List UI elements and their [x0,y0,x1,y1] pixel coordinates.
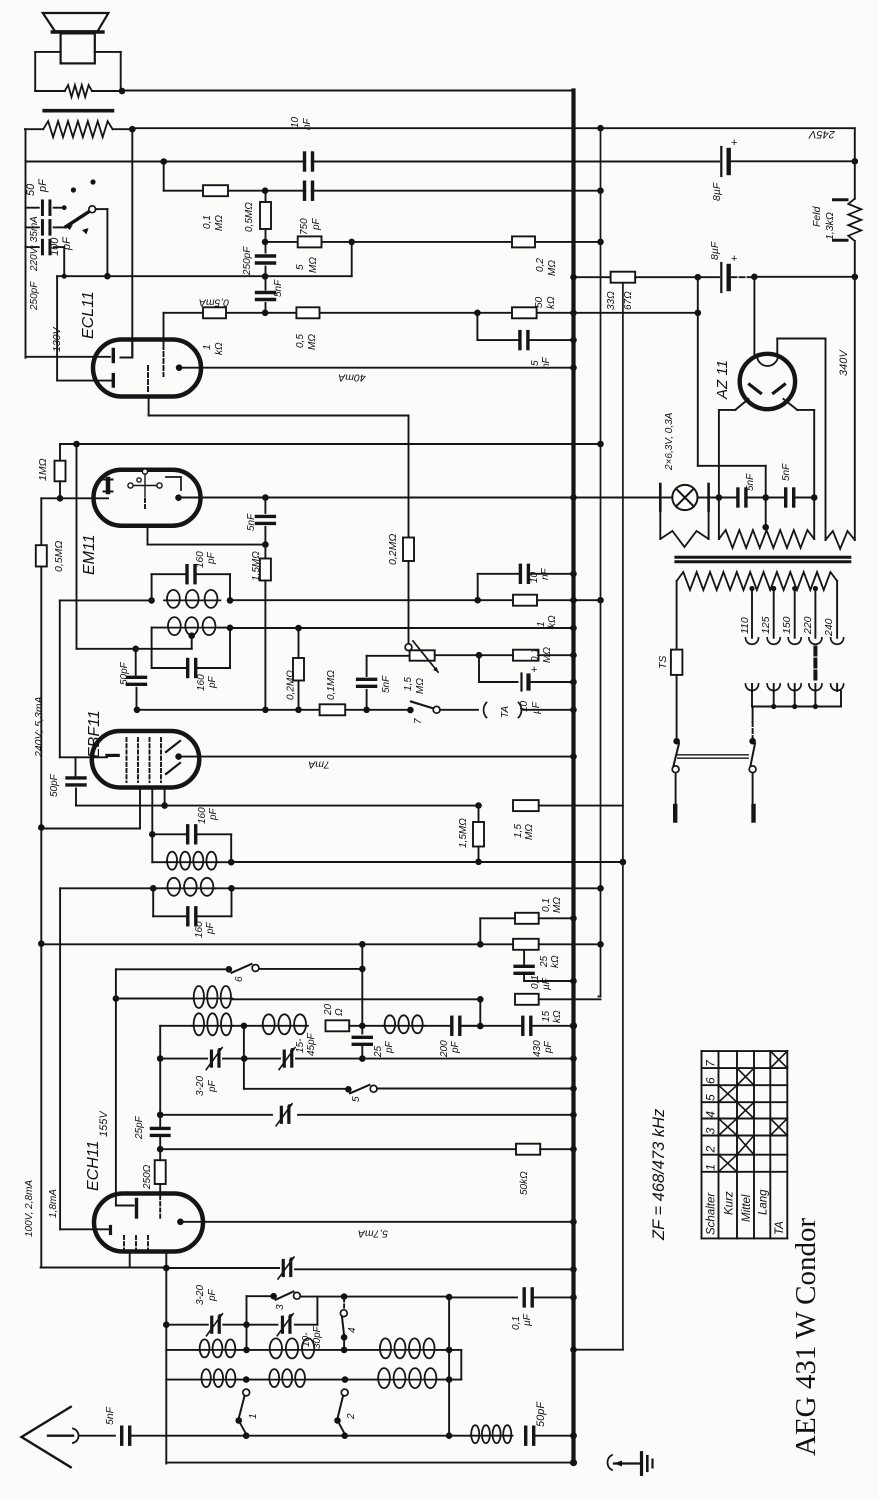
wire [264,545,266,559]
svg-text:1MΩ: 1MΩ [37,458,49,481]
AZ11 anode [750,385,761,394]
resistor 1.5MOhm [513,800,539,811]
wire [163,162,165,191]
junction [749,738,756,745]
wire [676,581,678,650]
wire [59,444,61,461]
tone switch lever [66,211,90,234]
junction [792,704,797,709]
wire [25,128,43,130]
wire [35,51,60,53]
junction [570,337,577,344]
wire pentode grid [163,313,165,345]
wire [218,861,231,863]
junction [570,1346,577,1353]
fuse TS [671,650,683,675]
wire [265,267,267,277]
capacitor 50pF [67,778,85,785]
svg-text:1: 1 [704,1164,718,1171]
coil oscillator [192,1013,233,1035]
winding HV 340V [826,531,855,549]
svg-text:8µF: 8µF [711,182,723,201]
wire ECL11 grid coupling [149,415,409,417]
svg-text:240: 240 [823,618,835,637]
switch 2 lever [338,1396,344,1419]
junction [262,494,269,501]
wire [533,1025,574,1027]
wire [264,581,266,710]
wire [151,788,153,835]
wire osc low [166,1324,208,1326]
wire [523,709,574,711]
wire [296,1058,574,1060]
junction [341,1334,348,1341]
coil oscillator [383,1015,424,1033]
svg-text:ECL11: ECL11 [80,291,97,339]
junction [177,1219,184,1226]
junction [597,941,604,948]
wire [751,691,753,707]
junction [716,494,723,501]
wire [479,918,481,944]
junction [262,310,269,317]
wire [26,226,39,228]
wire 155V line [160,1148,516,1150]
coil osc band [198,1339,237,1357]
svg-text:160: 160 [195,551,206,568]
wire [159,1196,161,1218]
svg-text:pF: pF [207,1288,218,1302]
tube ECL11 [93,340,201,397]
svg-text:160: 160 [196,674,207,691]
wire [814,589,816,638]
TA pickup jack [484,703,522,718]
junction [570,679,577,686]
svg-text:50pF: 50pF [119,661,130,685]
wire EM11 cathode [148,544,266,546]
wire [152,888,154,916]
wire tank1 left [59,600,61,757]
wire [229,574,231,600]
svg-text:250pF: 250pF [242,246,253,276]
resistor 0.1MOhm [515,913,539,924]
junction [570,571,577,578]
svg-text:250Ω: 250Ω [142,1164,153,1190]
junction [157,1055,164,1062]
wire [246,1435,345,1437]
junction [570,1294,577,1301]
table X mark [737,1102,754,1118]
capacitor 50pF tone [42,201,50,215]
wire [244,1088,348,1090]
svg-text:3: 3 [704,1127,718,1134]
svg-text:4: 4 [704,1111,718,1118]
resistor 50kOhm [516,1144,540,1155]
wire [678,757,749,759]
junction [295,625,302,632]
ECL11 plate [121,340,133,358]
svg-text:5nF: 5nF [745,473,756,491]
junction [176,364,183,371]
svg-text:50: 50 [534,296,545,308]
svg-text:1,5MΩ: 1,5MΩ [458,818,469,848]
capacitor 0.1uF [515,966,533,973]
svg-text:50: 50 [25,183,37,196]
junction [673,738,680,745]
svg-text:0,5MΩ: 0,5MΩ [53,541,65,572]
junction [227,625,234,632]
junction [175,494,182,501]
junction [852,158,859,165]
junction [792,586,797,591]
junction [597,125,604,132]
junction [161,802,168,809]
svg-text:Schalter: Schalter [706,1192,718,1235]
table line [702,1135,788,1137]
wire [233,998,481,1000]
svg-text:kΩ: kΩ [552,1010,563,1023]
trimmer 10-30pF [282,1317,290,1332]
junction [163,1321,170,1328]
svg-text:MΩ: MΩ [214,215,225,231]
wire [54,246,64,248]
coil oscillator feedback [192,986,233,1008]
wire to ECL11 plate [131,129,133,357]
tube EM11 [94,470,201,526]
wire [345,1435,470,1437]
wire [152,833,187,835]
wire [106,209,108,276]
svg-text:1,5: 1,5 [403,677,414,691]
potentiometer 1.5MOhm volume [410,641,438,672]
capacitor 430pF [523,1017,531,1034]
AZ11 top notch [757,356,778,367]
junction [475,859,482,866]
EM11 plate hook [166,477,181,490]
svg-text:EBF11: EBF11 [86,710,103,758]
junction [695,274,702,281]
junction [73,441,80,448]
wire [539,654,574,656]
capacitor 5nF [358,679,376,686]
svg-text:1,5: 1,5 [513,824,524,838]
wire [265,241,600,243]
wire [152,627,166,629]
junction [157,1146,164,1153]
capacitor 5nF [257,293,275,300]
svg-text:15: 15 [541,1010,552,1022]
wire AVC to grid [60,1228,108,1230]
svg-text:6: 6 [234,976,245,982]
wire [166,1267,279,1269]
wire [462,1025,481,1027]
wire [35,90,64,92]
svg-text:pF: pF [543,1040,554,1054]
wire [246,1325,248,1350]
svg-text:pF: pF [61,236,73,251]
wire [794,691,796,707]
wire [732,160,855,162]
junction [359,941,366,948]
svg-text:150: 150 [781,616,793,634]
junction [771,586,776,591]
table X mark [719,1085,738,1102]
wire 5.7mA [180,1221,573,1223]
junction [570,1022,577,1029]
junction [38,824,45,831]
mains switch lever [674,744,680,766]
svg-text:0,1: 0,1 [530,975,541,989]
wire [164,788,166,806]
trimmer 3-20pF [212,1317,220,1332]
wire [366,690,368,710]
svg-text:160: 160 [194,921,205,938]
svg-text:8µF: 8µF [709,241,721,260]
table line [702,1067,788,1069]
wire [424,1025,450,1027]
svg-text:25: 25 [373,1045,384,1058]
EBF11 grid dash [137,738,139,782]
wire [95,51,121,53]
wire [523,975,525,981]
winding lamp tap [660,531,708,547]
junction [474,310,481,317]
wire [265,191,267,202]
wire [698,497,709,499]
wire [478,847,480,862]
wire [116,1205,134,1207]
junction [345,1086,352,1093]
junction [348,239,355,246]
svg-text:50pF: 50pF [535,1401,547,1427]
junction [620,859,627,866]
wire [675,773,677,806]
trimmer 3-20pF [211,1051,219,1066]
svg-text:AZ 11: AZ 11 [714,360,731,400]
svg-text:220V; 35mA: 220V; 35mA [29,216,40,272]
svg-text:125: 125 [760,616,772,634]
svg-text:ECH11: ECH11 [85,1141,102,1191]
wire [218,627,230,629]
wire [478,655,480,682]
svg-text:MΩ: MΩ [308,257,319,273]
junction [129,126,136,133]
svg-text:7: 7 [413,718,424,724]
wire [215,887,231,889]
wire grid return column [40,567,42,1267]
resistor 1.5MOhm [473,822,484,847]
svg-text:5nF: 5nF [273,279,284,297]
junction [762,494,769,501]
variable capacitor tuning osc [281,1107,289,1122]
junction [476,652,483,659]
resistor 20Ohm [326,1020,350,1031]
svg-text:430: 430 [532,1040,543,1057]
capacitor 8uF electrolytic [721,263,728,292]
capacitor 5nF [256,516,274,523]
table line [702,1050,788,1052]
junction [57,495,64,502]
wire [230,627,574,629]
svg-text:pF: pF [205,921,216,935]
wire [232,887,601,889]
junction [570,1219,577,1226]
junction [811,494,818,501]
wire [477,574,479,600]
wire [752,773,754,806]
wire [773,684,775,691]
wire [751,684,753,691]
coil IF2 primary [166,852,219,870]
coil IF2 secondary [166,878,216,896]
svg-text:pF: pF [384,1040,395,1054]
resistor 250Ohm [155,1160,166,1184]
junction [341,1347,348,1354]
contact [90,179,95,184]
wire [747,497,784,499]
wire [366,656,368,676]
resistor 1kOhm [513,595,537,606]
junction [342,1376,349,1383]
wire chassis bus [571,91,575,1463]
svg-text:750: 750 [299,218,310,235]
wire [343,1337,345,1350]
wire [752,722,754,741]
junction [228,885,235,892]
junction [363,707,370,714]
EBF11 grid dash [126,738,128,782]
svg-text:kΩ: kΩ [214,342,225,355]
wire osc grid [160,1058,207,1060]
table line [736,1051,738,1238]
wire [660,497,672,499]
svg-text:µF: µF [531,701,542,714]
capacitor 5nF antenna [122,1427,130,1444]
resistor 0.2MOhm [293,658,304,681]
wire [223,1058,244,1060]
capacitor 25pF [151,1128,169,1135]
table X mark [737,1136,754,1155]
wire [136,688,138,710]
wire [574,1349,623,1351]
wire [316,1349,378,1351]
table X mark [770,1119,787,1136]
wire [539,805,623,807]
wire [139,788,141,829]
wire AVC [60,887,153,889]
wire AVC bus [600,128,602,996]
wire [244,1058,280,1060]
wire HV winding right [854,277,856,540]
wire speaker feedback bus [622,283,624,1350]
EBF11 grid dash [160,738,162,782]
switch 5 lever [350,1085,370,1094]
svg-text:1,8mA: 1,8mA [48,1189,59,1218]
junction [38,940,45,947]
wire EM11 line [60,443,601,445]
svg-text:0,2MΩ: 0,2MΩ [387,534,399,565]
wire [539,998,601,1000]
svg-text:+: + [731,137,737,149]
svg-text:Feld: Feld [811,205,823,227]
wire heater/lamp line [179,497,661,499]
wire [752,706,841,708]
junction [262,273,269,280]
pilot lamp [672,485,697,510]
svg-text:TA: TA [774,1221,786,1235]
speaker LS [43,13,109,63]
svg-text:25pF: 25pF [134,1115,145,1140]
switch 4 lever [342,1317,344,1336]
resistor 0.1MOhm [320,704,346,715]
wire [814,691,816,707]
switch 1 lever [239,1396,245,1419]
junction [407,707,414,714]
wire [26,246,39,248]
wire [144,499,146,510]
ECL11 grid dash [163,345,165,376]
ECH11 grid dash [135,1236,137,1251]
wire [599,996,601,998]
ECH11 grid dash [123,1236,125,1251]
wire [408,416,410,538]
wire [316,1297,318,1325]
svg-text:10: 10 [529,571,540,583]
coil antenna choke [470,1425,513,1443]
wire [230,599,513,601]
wire [135,649,137,675]
svg-text:Kurz: Kurz [724,1191,736,1215]
wire [440,709,478,711]
wire [794,589,796,638]
junction [262,187,269,194]
svg-text:kΩ: kΩ [546,296,557,309]
junction [477,996,484,1003]
wire [539,917,574,919]
svg-text:0,5MΩ: 0,5MΩ [244,202,255,232]
junction [597,441,604,448]
svg-text:1: 1 [202,344,213,350]
wire [448,1297,450,1436]
wire [259,968,362,970]
svg-text:2×6,3V, 0,3A: 2×6,3V, 0,3A [664,412,675,471]
svg-text:67Ω: 67Ω [623,291,634,310]
junction [235,1417,242,1424]
capacitor 750pF [305,182,313,199]
coil antenna band [200,1369,237,1387]
wire [41,828,140,830]
wire [836,581,838,638]
capacitor 50pF [526,1427,534,1444]
wire grid line [164,312,698,314]
wire [574,276,611,278]
wire [367,655,410,657]
capacitor 160pF [188,660,196,677]
voltage tap contact [788,684,801,691]
wire [523,950,525,965]
wire [295,1268,574,1270]
svg-text:ZF = 468/473 kHz: ZF = 468/473 kHz [650,1108,668,1241]
junction [104,273,111,280]
svg-text:0,1: 0,1 [511,1316,522,1330]
resistor 0.5MOhm [296,307,319,318]
wire [198,915,231,917]
wire [54,226,64,228]
junction [771,704,776,709]
table line [786,1051,788,1238]
table line [702,1118,788,1120]
capacitor 10nF [520,565,528,582]
